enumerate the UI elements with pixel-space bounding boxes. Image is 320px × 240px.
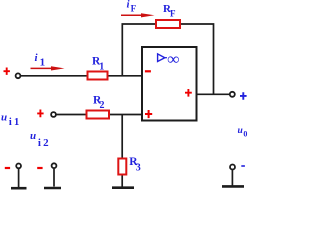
svg-text:0: 0 — [243, 129, 247, 138]
svg-text:1: 1 — [40, 57, 46, 69]
svg-text:u: u — [238, 126, 243, 136]
svg-text:u: u — [1, 111, 7, 123]
svg-text:i1: i1 — [9, 117, 22, 128]
svg-text:u: u — [30, 130, 36, 142]
svg-text:F: F — [131, 4, 137, 14]
svg-text:3: 3 — [136, 163, 141, 174]
svg-text:i2: i2 — [38, 137, 51, 149]
svg-text:F: F — [170, 9, 176, 19]
svg-text:1: 1 — [99, 62, 104, 73]
svg-text:2: 2 — [100, 100, 105, 111]
svg-text:∞: ∞ — [167, 49, 179, 68]
